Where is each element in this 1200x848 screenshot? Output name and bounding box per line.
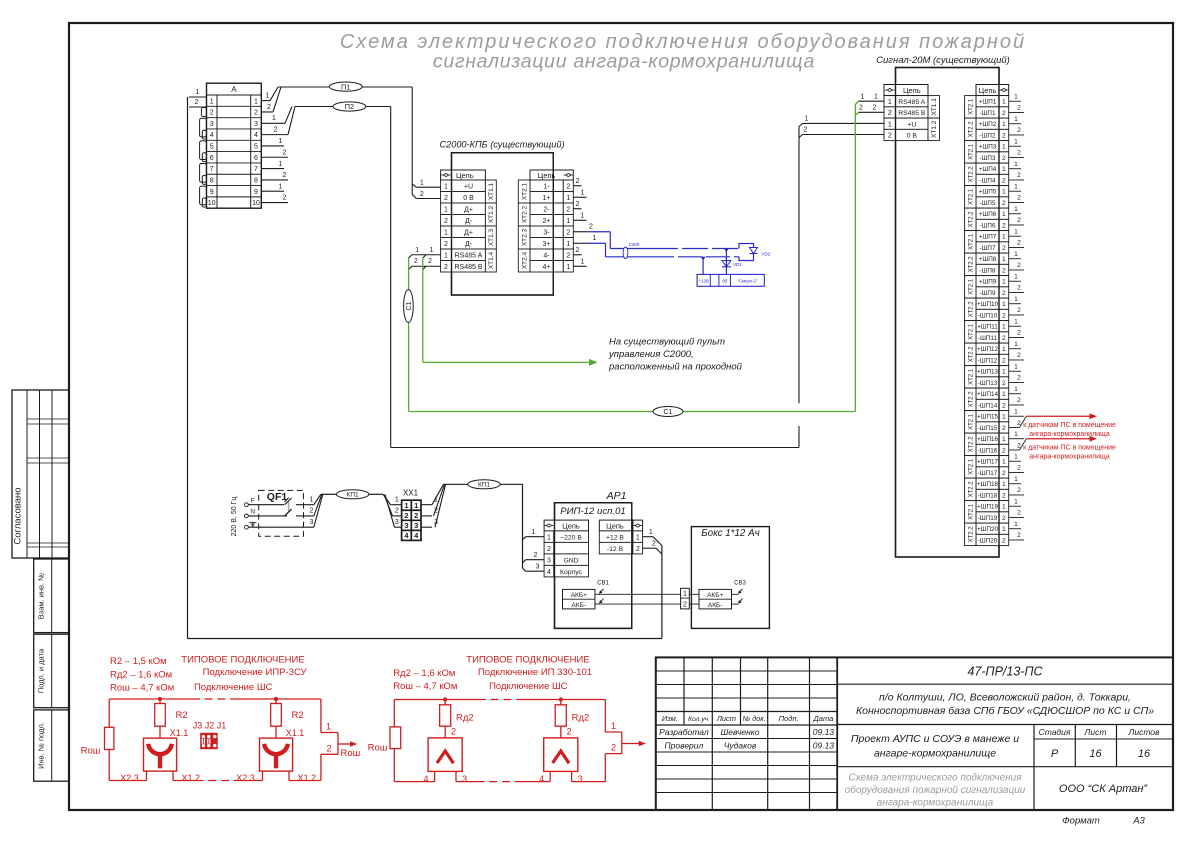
svg-text:ангаре-кормохранилище: ангаре-кормохранилище [874, 748, 996, 760]
svg-text:А: А [231, 85, 237, 94]
svg-text:1: 1 [581, 258, 585, 265]
svg-text:РИП-12 исп.01: РИП-12 исп.01 [560, 506, 626, 517]
svg-text:Подключение ШС: Подключение ШС [194, 682, 273, 693]
svg-text:2: 2 [1002, 470, 1006, 477]
svg-text:Подключение ИП 330-101: Подключение ИП 330-101 [478, 667, 592, 678]
svg-text:1: 1 [444, 252, 448, 259]
circuit breaker QF1 [248, 490, 313, 536]
wire П2 run (to Сигнал-20М power) [295, 107, 803, 448]
svg-text:Цепь: Цепь [903, 86, 921, 95]
svg-text:-ШП6: -ШП6 [980, 222, 996, 229]
svg-text:Чудаков: Чудаков [724, 741, 757, 751]
svg-text:С300: С300 [629, 242, 640, 247]
wire RS485 stubs from С2000-КПБ [409, 247, 441, 269]
svg-text:2: 2 [1017, 510, 1021, 517]
svg-text:5: 5 [210, 144, 214, 151]
cable marker КП1 (right) [468, 480, 501, 489]
svg-text:Подп.: Подп. [779, 714, 799, 723]
svg-text:1: 1 [1002, 256, 1006, 263]
svg-text:2: 2 [1002, 245, 1006, 252]
svg-text:XT2.1: XT2.1 [969, 368, 975, 385]
svg-text:XT1.4: XT1.4 [488, 251, 495, 269]
svg-text:3: 3 [414, 521, 418, 530]
svg-text:5: 5 [254, 144, 258, 151]
svg-text:R2: R2 [176, 710, 188, 721]
svg-text:-ШП4: -ШП4 [980, 177, 996, 184]
device Сигнал-20М [876, 55, 1010, 557]
svg-text:С2000-КПБ (существующий): С2000-КПБ (существующий) [439, 140, 564, 150]
legend texts group2 [393, 655, 592, 693]
svg-text:4: 4 [547, 569, 551, 576]
svg-text:2: 2 [1002, 110, 1006, 117]
svg-text:RS485 A: RS485 A [455, 252, 483, 259]
svg-text:XT2.1: XT2.1 [969, 98, 975, 115]
svg-text:XT2.2: XT2.2 [969, 346, 975, 363]
svg-text:1: 1 [1014, 161, 1018, 168]
svg-text:8: 8 [210, 178, 214, 185]
svg-text:Конноспортивная база СПб ГБОУ: Конноспортивная база СПб ГБОУ «СДЮСШОР п… [856, 705, 1154, 717]
svg-text:2: 2 [1002, 492, 1006, 499]
svg-text:КП1: КП1 [347, 492, 359, 499]
smoke detector unit 1 (ИП 330-101) [423, 697, 473, 784]
svg-text:1: 1 [636, 534, 640, 541]
svg-text:N: N [250, 509, 255, 516]
svg-text:3-: 3- [543, 229, 550, 236]
svg-text:VD2: VD2 [762, 252, 771, 257]
svg-text:+ШП15: +ШП15 [977, 414, 998, 421]
wire RS485 branch to С2000 console (green) [423, 258, 598, 366]
ground symbol [249, 522, 256, 527]
svg-text:X1.1: X1.1 [286, 728, 305, 738]
svg-text:АКБ+: АКБ+ [571, 592, 587, 599]
cable marker КП1 (left) [336, 490, 369, 499]
svg-text:1: 1 [1014, 476, 1018, 483]
title block texts [659, 665, 1160, 827]
svg-text:4+: 4+ [543, 264, 551, 271]
svg-text:RS485 A: RS485 A [898, 99, 925, 106]
svg-text:1: 1 [1002, 436, 1006, 443]
svg-text:R2: R2 [292, 710, 304, 721]
svg-text:XT2.2: XT2.2 [969, 436, 975, 453]
svg-text:1: 1 [532, 529, 536, 536]
svg-text:1: 1 [861, 93, 865, 100]
svg-text:2: 2 [804, 127, 808, 134]
connector A mating brackets [200, 108, 207, 208]
svg-text:Инв. № подл.: Инв. № подл. [37, 722, 46, 769]
svg-text:2: 2 [547, 546, 551, 553]
svg-text:1: 1 [1002, 481, 1006, 488]
output of group2 [605, 700, 646, 782]
svg-text:2: 2 [283, 172, 287, 179]
svg-text:-ШП20: -ШП20 [978, 537, 998, 544]
svg-text:1: 1 [1014, 228, 1018, 235]
svg-text:1: 1 [1014, 93, 1018, 100]
svg-text:XT2.1: XT2.1 [969, 233, 975, 250]
svg-text:1: 1 [1002, 526, 1006, 533]
svg-text:Подключение ИПР-3СУ: Подключение ИПР-3СУ [203, 667, 308, 678]
svg-text:2: 2 [404, 511, 408, 520]
svg-text:1: 1 [566, 195, 570, 202]
svg-text:X1.2: X1.2 [182, 773, 201, 783]
svg-text:Проверил: Проверил [664, 741, 703, 751]
svg-text:1: 1 [805, 116, 809, 123]
С2000-КПБ XT2 spare stubs [573, 178, 586, 266]
svg-text:XT2.1: XT2.1 [521, 182, 528, 200]
svg-text:-ШП16: -ШП16 [978, 447, 998, 454]
svg-text:1: 1 [1014, 363, 1018, 370]
svg-text:2: 2 [444, 241, 448, 248]
svg-text:1: 1 [1002, 414, 1006, 421]
svg-text:3: 3 [210, 121, 214, 128]
svg-text:3: 3 [578, 774, 583, 784]
svg-text:Кол.уч: Кол.уч [688, 716, 709, 723]
smoke detector unit 2 (ИП 330-101) [539, 697, 589, 784]
svg-text:1: 1 [310, 497, 314, 504]
svg-text:2: 2 [888, 110, 892, 117]
svg-text:+ШП7: +ШП7 [979, 234, 997, 241]
svg-text:Изм.: Изм. [662, 714, 678, 723]
svg-text:2: 2 [1017, 420, 1021, 427]
svg-text:2: 2 [1017, 375, 1021, 382]
svg-text:2: 2 [1017, 307, 1021, 314]
sidebar cell Подп. и дата [34, 634, 69, 708]
cable marker С300 [623, 242, 640, 258]
svg-text:+12 В: +12 В [606, 534, 624, 541]
svg-text:2: 2 [254, 110, 258, 117]
svg-text:+ШП13: +ШП13 [977, 369, 998, 376]
svg-text:Д+: Д+ [464, 229, 473, 236]
main gray title [340, 31, 1026, 73]
АР1 terminal table left [544, 520, 588, 577]
svg-text:Rош: Rош [81, 746, 101, 757]
svg-text:XT1.2: XT1.2 [931, 120, 938, 138]
svg-text:-ШП17: -ШП17 [978, 470, 998, 477]
svg-text:-ШП19: -ШП19 [978, 515, 998, 522]
svg-text:~220 В: ~220 В [560, 534, 582, 541]
svg-text:1: 1 [279, 138, 283, 145]
svg-text:1: 1 [1014, 183, 1018, 190]
svg-text:1: 1 [1002, 459, 1006, 466]
svg-text:+ШП5: +ШП5 [979, 189, 997, 196]
svg-text:J3 J2 J1: J3 J2 J1 [193, 721, 227, 731]
svg-text:2: 2 [1002, 515, 1006, 522]
svg-text:1: 1 [649, 529, 653, 536]
svg-text:Подключение ШС: Подключение ШС [489, 681, 568, 692]
svg-text:Д-: Д- [465, 218, 473, 225]
svg-text:XT1.3: XT1.3 [488, 228, 495, 246]
svg-text:2: 2 [1017, 240, 1021, 247]
svg-text:1: 1 [611, 721, 616, 731]
svg-text:+ШП12: +ШП12 [977, 346, 998, 353]
cable marker П1 [329, 82, 362, 91]
Сигнал-20М terminal table XT2 (ШП1..ШП20) [965, 85, 1009, 546]
svg-text:-ШП1: -ШП1 [980, 110, 996, 117]
svg-text:1: 1 [395, 497, 399, 504]
svg-text:1: 1 [1002, 504, 1006, 511]
svg-text:1: 1 [254, 98, 258, 105]
svg-text:+ШП1: +ШП1 [979, 99, 997, 106]
svg-text:+ШП20: +ШП20 [977, 526, 998, 533]
svg-text:2: 2 [310, 508, 314, 515]
svg-text:1: 1 [444, 206, 448, 213]
svg-text:1: 1 [266, 93, 270, 100]
wires КП1 into АР1 [523, 484, 545, 571]
svg-text:2: 2 [873, 104, 877, 111]
АР1 outline redraw [555, 503, 632, 629]
svg-text:Сигнал-20М (существующий): Сигнал-20М (существующий) [876, 55, 1010, 66]
svg-text:1: 1 [272, 115, 276, 122]
svg-text:220 В, 50 Гц: 220 В, 50 Гц [231, 497, 238, 537]
svg-text:+ШП6: +ШП6 [979, 211, 997, 218]
svg-text:F: F [251, 497, 255, 504]
svg-text:2: 2 [1017, 330, 1021, 337]
svg-text:Цепь: Цепь [979, 86, 997, 95]
svg-text:X2.3: X2.3 [120, 773, 139, 783]
svg-text:6: 6 [210, 155, 214, 162]
svg-text:XT1.1: XT1.1 [931, 98, 938, 116]
cable marker С1 (vertical) [404, 290, 414, 323]
svg-text:+ШП2: +ШП2 [979, 121, 997, 128]
svg-text:8: 8 [254, 178, 258, 185]
svg-text:VD1: VD1 [733, 262, 742, 267]
wires +12В/-12В output loop back to A [188, 529, 662, 639]
svg-text:2: 2 [1002, 357, 1006, 364]
svg-text:0 В: 0 В [907, 133, 918, 140]
svg-text:XT2.1: XT2.1 [969, 143, 975, 160]
svg-text:1: 1 [1002, 234, 1006, 241]
detector unit 1 (ИПР) [120, 697, 200, 783]
svg-text:Схема электрического подключен: Схема электрического подключения [848, 772, 1022, 783]
svg-text:+ШП17: +ШП17 [977, 459, 998, 466]
svg-text:оборудования пожарной сигнализ: оборудования пожарной сигнализации [845, 784, 1026, 796]
svg-text:1: 1 [1014, 341, 1018, 348]
svg-text:1: 1 [581, 212, 585, 219]
svg-text:к датчикам ПС в помещение: к датчикам ПС в помещение [1023, 444, 1116, 451]
svg-text:2-: 2- [543, 206, 550, 213]
wire 12V feed into A pins 1,2 [189, 89, 207, 107]
svg-text:+U: +U [907, 121, 916, 128]
svg-text:1: 1 [1002, 346, 1006, 353]
svg-text:Rд2: Rд2 [572, 712, 590, 723]
svg-text:1: 1 [414, 501, 418, 510]
svg-text:2: 2 [1002, 222, 1006, 229]
svg-text:2: 2 [1002, 132, 1006, 139]
svg-text:16: 16 [1089, 748, 1102, 760]
svg-text:2: 2 [1017, 105, 1021, 112]
svg-text:Бокс 1*12 Ач: Бокс 1*12 Ач [701, 528, 759, 539]
wires ШП15 to sensors (red arrow) [1009, 409, 1116, 439]
svg-text:2: 2 [1017, 285, 1021, 292]
svg-text:1: 1 [888, 121, 892, 128]
svg-text:ООО “СК Артан”: ООО “СК Артан” [1059, 783, 1149, 795]
svg-text:XT2.3: XT2.3 [521, 228, 528, 246]
svg-text:RS485 B: RS485 B [898, 110, 926, 117]
svg-text:0 В: 0 В [463, 195, 474, 202]
svg-text:3: 3 [404, 521, 408, 530]
svg-text:Цепь: Цепь [456, 171, 474, 180]
svg-text:-ШП5: -ШП5 [980, 200, 996, 207]
С2000-КПБ outline redraw [452, 153, 554, 295]
resistor Rош group2 [368, 727, 401, 754]
svg-text:9: 9 [254, 189, 258, 196]
svg-text:1: 1 [581, 189, 585, 196]
svg-text:XT2.2: XT2.2 [969, 121, 975, 138]
svg-text:1: 1 [444, 183, 448, 190]
svg-text:XT2.2: XT2.2 [969, 391, 975, 408]
svg-text:2: 2 [395, 508, 399, 515]
svg-text:2: 2 [1017, 127, 1021, 134]
svg-text:7: 7 [254, 166, 258, 173]
svg-text:ТИПОВОЕ ПОДКЛЮЧЕНИЕ: ТИПОВОЕ ПОДКЛЮЧЕНИЕ [466, 655, 589, 666]
svg-text:XT2.2: XT2.2 [969, 301, 975, 318]
svg-text:2: 2 [1002, 425, 1006, 432]
svg-text:А3: А3 [1132, 816, 1145, 827]
siren terminal box Смерч-2 [697, 274, 764, 286]
svg-text:2: 2 [576, 178, 580, 185]
connector cells 1/2 [681, 588, 690, 609]
wires ШП16 to sensors (red arrow) [1009, 431, 1116, 461]
svg-text:АКБ+: АКБ+ [707, 592, 723, 599]
svg-text:+ШП8: +ШП8 [979, 256, 997, 263]
device АР1 РИП-12 [555, 490, 632, 628]
svg-text:XT2.2: XT2.2 [969, 526, 975, 543]
svg-text:XT2.1: XT2.1 [969, 458, 975, 475]
svg-text:QF1: QF1 [267, 491, 288, 503]
svg-text:С1: С1 [664, 409, 673, 416]
sidebar cell Инв. № подл. [34, 710, 69, 781]
svg-text:4: 4 [254, 132, 258, 139]
svg-text:1: 1 [593, 235, 597, 242]
svg-text:2: 2 [859, 104, 863, 111]
wire +12V branch to siren box [701, 257, 706, 275]
svg-text:АКБ-: АКБ- [708, 602, 723, 609]
svg-text:Стадия: Стадия [1039, 727, 1071, 737]
svg-text:1: 1 [1014, 521, 1018, 528]
svg-text:2+: 2+ [543, 218, 551, 225]
svg-text:2: 2 [274, 126, 278, 133]
svg-text:Цепь: Цепь [606, 522, 624, 531]
svg-text:2: 2 [1017, 195, 1021, 202]
diode VD2 loop [739, 244, 771, 261]
svg-text:+ШП4: +ШП4 [979, 166, 997, 173]
svg-text:2: 2 [683, 602, 687, 609]
wires XX1 to cable КП1 (right) [421, 484, 523, 527]
svg-text:2: 2 [566, 252, 570, 259]
svg-text:1: 1 [430, 247, 434, 254]
svg-text:управления С2000,: управления С2000, [608, 349, 694, 360]
svg-text:2: 2 [1002, 312, 1006, 319]
svg-text:1: 1 [1002, 391, 1006, 398]
svg-text:XT2.2: XT2.2 [969, 166, 975, 183]
svg-text:-ШП9: -ШП9 [980, 290, 996, 297]
wires QF1 to cable КП1 [310, 494, 383, 527]
svg-text:2: 2 [1017, 465, 1021, 472]
svg-text:1: 1 [1002, 99, 1006, 106]
svg-text:1: 1 [420, 179, 424, 186]
svg-text:Rд2: Rд2 [456, 712, 474, 723]
svg-text:2: 2 [444, 264, 448, 271]
Сигнал-20М outline redraw [896, 68, 1000, 558]
svg-text:XT2.2: XT2.2 [969, 211, 975, 228]
svg-text:0В: 0В [722, 279, 727, 284]
wires АКБ to Бокс [595, 594, 699, 604]
loop wires group2 [394, 700, 605, 782]
svg-text:2: 2 [1017, 217, 1021, 224]
svg-text:П2: П2 [345, 102, 355, 111]
svg-text:1: 1 [210, 98, 214, 105]
svg-text:Корпус: Корпус [560, 569, 583, 576]
svg-text:АР1: АР1 [606, 490, 627, 502]
svg-text:-ШП13: -ШП13 [978, 380, 998, 387]
svg-text:1: 1 [1014, 409, 1018, 416]
svg-text:+12В: +12В [699, 279, 709, 284]
svg-text:ТИПОВОЕ ПОДКЛЮЧЕНИЕ: ТИПОВОЕ ПОДКЛЮЧЕНИЕ [181, 655, 304, 666]
svg-text:3: 3 [254, 121, 258, 128]
svg-text:1: 1 [1014, 206, 1018, 213]
svg-text:1: 1 [1002, 324, 1006, 331]
svg-text:Rош: Rош [368, 743, 388, 754]
svg-text:1: 1 [1014, 296, 1018, 303]
svg-text:2: 2 [1002, 155, 1006, 162]
detector unit 2 (ИПР) [236, 697, 316, 783]
svg-text:16: 16 [1138, 748, 1151, 760]
svg-text:№ док.: № док. [743, 714, 766, 723]
svg-text:1: 1 [1002, 144, 1006, 151]
svg-text:1: 1 [1002, 279, 1006, 286]
svg-text:1: 1 [444, 229, 448, 236]
svg-text:R2 – 1,5 кОм: R2 – 1,5 кОм [110, 656, 167, 667]
wires RS485 into Сигнал-20М [858, 93, 884, 112]
wire siren pair (blue) [587, 232, 739, 257]
svg-text:2: 2 [1017, 150, 1021, 157]
svg-text:4-: 4- [543, 252, 550, 259]
svg-text:Шевченко: Шевченко [720, 727, 759, 737]
svg-text:На существующий пульт: На существующий пульт [609, 337, 725, 348]
svg-text:XT2.1: XT2.1 [969, 278, 975, 295]
svg-text:1: 1 [415, 247, 419, 254]
svg-text:3: 3 [310, 519, 314, 526]
svg-text:2: 2 [1017, 487, 1021, 494]
svg-text:+ШП16: +ШП16 [977, 436, 998, 443]
Бокс battery terminals [699, 581, 746, 609]
svg-text:сигнализации ангара-кормохрани: сигнализации ангара-кормохранилища [433, 51, 815, 73]
svg-text:2: 2 [1002, 267, 1006, 274]
device С2000-КПБ [439, 140, 564, 296]
svg-text:Лист: Лист [716, 714, 736, 723]
svg-text:1: 1 [279, 161, 283, 168]
svg-text:XT2.2: XT2.2 [969, 256, 975, 273]
svg-text:2: 2 [566, 183, 570, 190]
svg-text:-ШП18: -ШП18 [978, 492, 998, 499]
С2000-КПБ terminal table XT2 [518, 170, 573, 272]
svg-text:Разработал: Разработал [659, 727, 709, 737]
svg-text:2: 2 [611, 743, 616, 753]
output of group1 [321, 699, 360, 781]
svg-text:XT2.1: XT2.1 [969, 503, 975, 520]
svg-text:2: 2 [267, 104, 271, 111]
svg-text:Д+: Д+ [464, 206, 473, 213]
svg-text:GND: GND [563, 557, 578, 564]
svg-text:-ШП10: -ШП10 [978, 312, 998, 319]
svg-text:XT2.1: XT2.1 [969, 188, 975, 205]
svg-text:1: 1 [566, 264, 570, 271]
jumpers J3 J2 J1 [193, 721, 227, 750]
svg-text:1: 1 [547, 534, 551, 541]
svg-text:1: 1 [1014, 498, 1018, 505]
svg-text:1: 1 [683, 591, 687, 598]
svg-text:2: 2 [1002, 335, 1006, 342]
svg-text:XT2.2: XT2.2 [969, 481, 975, 498]
